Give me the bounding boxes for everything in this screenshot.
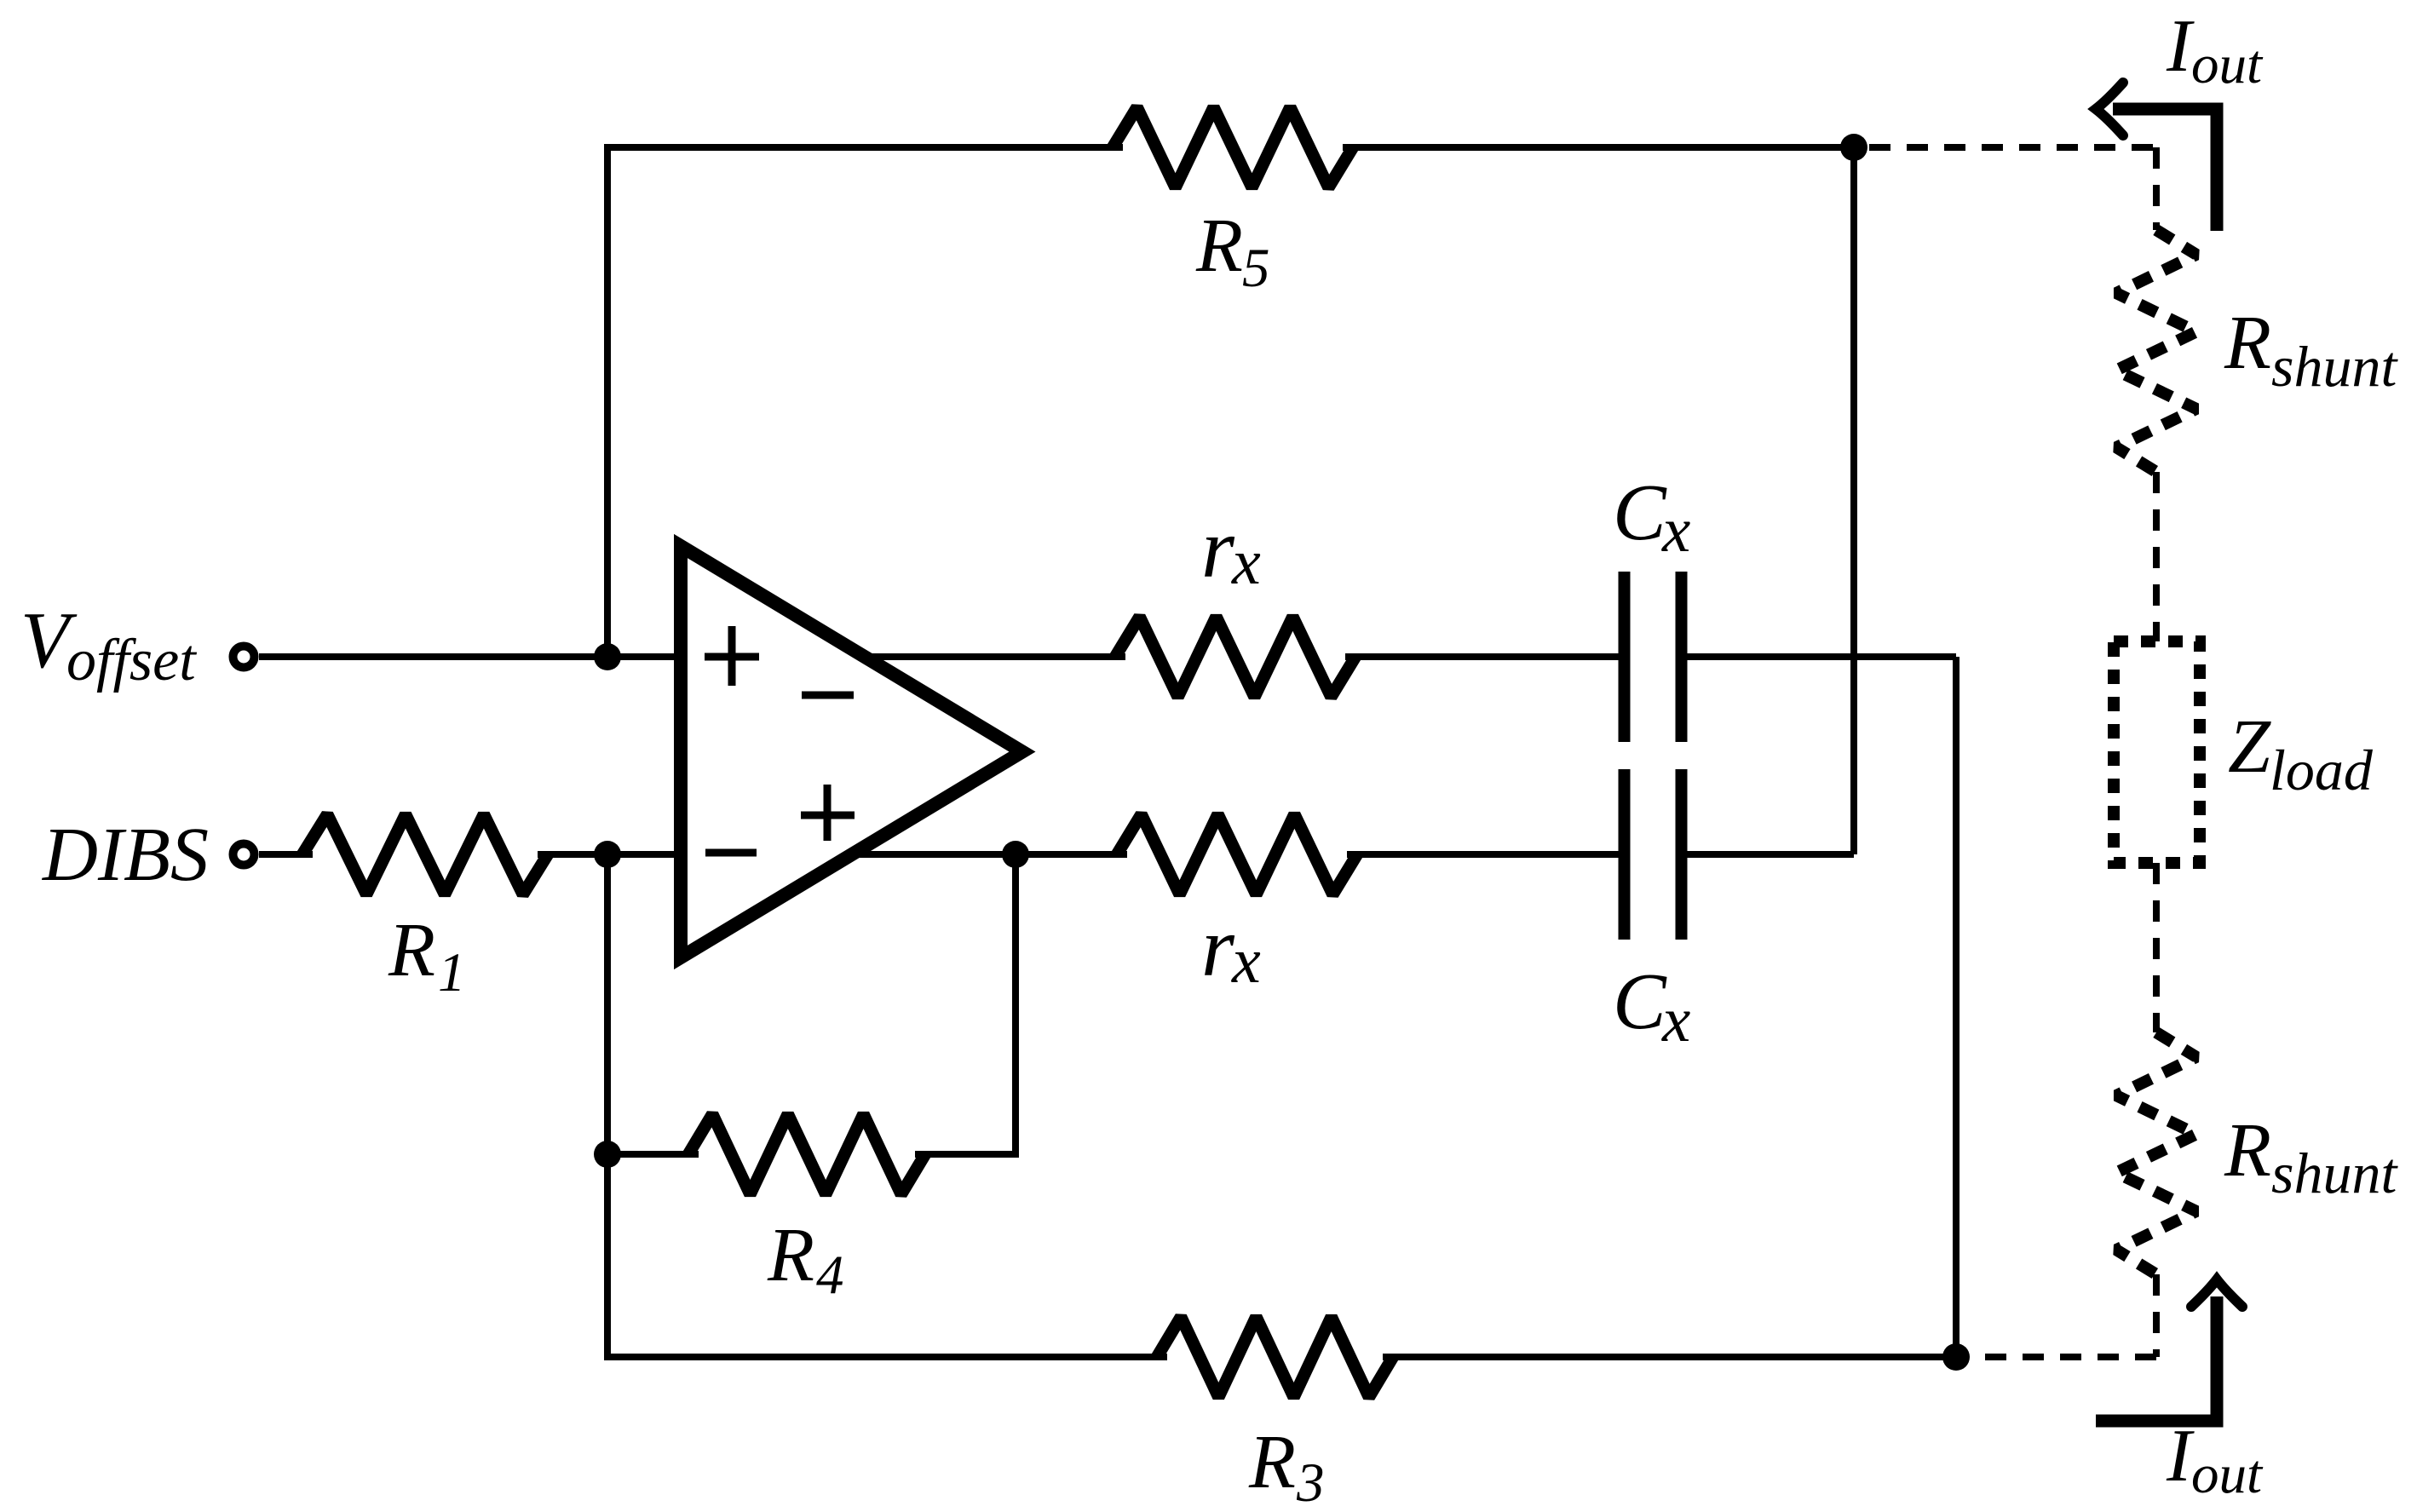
op-amp - input polarity xyxy=(705,849,757,857)
svg-text:r: r xyxy=(1201,900,1235,994)
svg-text:Z: Z xyxy=(2228,704,2271,789)
svg-text:R: R xyxy=(767,1213,814,1297)
wire dashed bottom (load column to bottom junction) xyxy=(1971,1354,2156,1360)
op-amp - output polarity (top) xyxy=(802,692,854,699)
resistor Rshunt top label xyxy=(2224,301,2398,399)
resistor rx bottom label xyxy=(1201,900,1261,997)
wire Cx bottom to right vertical xyxy=(1682,851,1855,858)
wire R4 right lead and riser xyxy=(915,854,1016,1154)
svg-text:x: x xyxy=(1661,495,1690,566)
resistor R1 label xyxy=(388,908,466,1003)
op-amp + output polarity (bottom) xyxy=(801,785,855,841)
resistor R5 label xyxy=(1195,204,1270,299)
svg-text:C: C xyxy=(1613,957,1667,1046)
node DIBS junction xyxy=(594,841,621,868)
resistor rx (bottom) xyxy=(1117,814,1357,894)
svg-text:x: x xyxy=(1231,925,1261,997)
resistor rx (top) xyxy=(1115,617,1355,697)
resistor rx top label xyxy=(1201,501,1261,598)
wire bottom-left horizontal (R3 left lead) xyxy=(604,1354,1167,1360)
wire R4 left lead xyxy=(607,1151,699,1158)
wire right vertical (top path down to bottom junction) xyxy=(1953,657,1959,1357)
resistor Rshunt bottom label xyxy=(2224,1108,2398,1205)
svg-text:r: r xyxy=(1201,501,1235,595)
resistor R4 label xyxy=(767,1213,844,1306)
wire top-left horizontal (R5 left lead) xyxy=(604,144,1123,151)
capacitor Cx (top) xyxy=(1625,572,1682,742)
wire dashed load column upper xyxy=(2153,147,2160,230)
wire DIBS to R1 xyxy=(259,851,313,858)
svg-text:out: out xyxy=(2191,34,2264,95)
svg-text:3: 3 xyxy=(1296,1452,1325,1512)
capacitor Cx (bottom) xyxy=(1625,769,1682,940)
wire op-amp bottom output xyxy=(855,851,1127,858)
wire bottom-right horizontal (R3 to bottom junction) xyxy=(1383,1354,1956,1360)
op-amp U1 (fully differential) xyxy=(681,546,1022,957)
wire V_offset input xyxy=(259,653,681,660)
svg-text:I: I xyxy=(2166,1415,2195,1498)
svg-text:R: R xyxy=(1195,204,1243,288)
terminal DIBS xyxy=(233,844,255,865)
resistor R3 xyxy=(1157,1317,1393,1397)
impedance Zload label xyxy=(2228,704,2374,802)
svg-text:load: load xyxy=(2270,738,2374,802)
resistor Rshunt (bottom, dashed) xyxy=(2116,1032,2196,1274)
wire dashed load column lower xyxy=(2153,1274,2160,1357)
svg-text:out: out xyxy=(2191,1444,2264,1505)
svg-text:offset: offset xyxy=(66,628,197,693)
svg-text:R: R xyxy=(388,908,435,992)
svg-text:DIBS: DIBS xyxy=(41,813,209,897)
capacitor Cx bottom label xyxy=(1613,957,1690,1055)
resistor R4 xyxy=(688,1114,925,1194)
wire dashed Rshunt to Zload xyxy=(2153,472,2160,641)
node top-right junction xyxy=(1840,134,1867,161)
impedance Zload (dashed box) xyxy=(2114,641,2200,863)
svg-text:5: 5 xyxy=(1242,238,1270,299)
node bottom output junction xyxy=(1002,841,1029,868)
svg-text:x: x xyxy=(1231,526,1261,598)
svg-text:shunt: shunt xyxy=(2271,334,2398,399)
svg-text:R: R xyxy=(2224,1108,2271,1193)
svg-text:R: R xyxy=(1248,1420,1296,1504)
capacitor Cx top label xyxy=(1613,469,1690,566)
node V_offset junction xyxy=(594,643,621,670)
current I_out top label xyxy=(2166,5,2264,95)
resistor Rshunt (top, dashed) xyxy=(2116,230,2196,472)
wire rx to Cx bottom xyxy=(1347,851,1625,858)
svg-text:shunt: shunt xyxy=(2271,1141,2398,1205)
wire rx to Cx top xyxy=(1345,653,1625,660)
wire op-amp top output to rx xyxy=(864,653,1125,660)
current I_out bottom label xyxy=(2166,1415,2264,1505)
svg-text:C: C xyxy=(1613,469,1667,557)
svg-text:I: I xyxy=(2166,5,2195,88)
wire dashed top (junction to load column) xyxy=(1869,144,2156,151)
svg-text:x: x xyxy=(1661,985,1690,1055)
wire left column upper (top wire down to V_offset node) xyxy=(604,144,611,657)
op-amp + input polarity xyxy=(705,626,759,686)
wire dashed Zload to Rshunt bottom xyxy=(2153,863,2160,1032)
wire Cx top to right corner xyxy=(1682,653,1957,660)
arrow I_out (top) xyxy=(2096,83,2217,231)
wire left column lower (DIBS node down to bottom wire) xyxy=(604,854,611,1360)
node bottom-right junction xyxy=(1942,1343,1970,1371)
resistor R1 xyxy=(302,814,548,894)
node R4 left junction xyxy=(594,1141,621,1168)
arrow I_out (bottom) xyxy=(2096,1279,2242,1421)
wire top-right horizontal (R5 right lead to top junction) xyxy=(1343,144,1854,151)
wire R1 to - input xyxy=(538,851,681,858)
svg-text:4: 4 xyxy=(816,1245,844,1306)
wire right vertical (bottom path up to top junction) xyxy=(1850,147,1857,854)
resistor R3 label xyxy=(1248,1420,1325,1512)
svg-text:R: R xyxy=(2224,301,2271,385)
terminal V_offset xyxy=(233,647,255,668)
node V_offset label xyxy=(20,596,197,693)
node DIBS label xyxy=(41,813,209,897)
svg-text:1: 1 xyxy=(438,942,466,1003)
resistor R5 xyxy=(1113,107,1353,187)
